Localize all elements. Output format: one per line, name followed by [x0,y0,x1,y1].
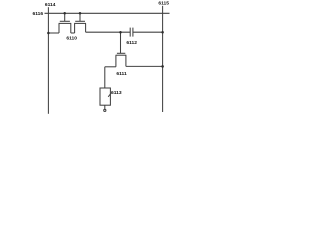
node dot capacitor wire to right bit line [161,31,164,34]
transistor Q3 drain leg [125,55,127,66]
wire stub below box [104,105,106,109]
svg-text:6112: 6112 [126,40,137,46]
transistor Q1 gate bar [60,20,70,22]
svg-text:6113: 6113 [111,90,122,96]
transistor Q2 source leg [74,23,76,33]
box component 6113 [100,88,110,105]
wire gate line to transistor 6111 [120,32,122,53]
node dot gate-line junction [119,31,122,34]
wire capacitor to right bit line [133,31,163,33]
node dot rail-Q2 gate [79,12,82,15]
transistor Q1 drain leg [70,23,72,33]
capacitor C 6112 left plate [129,28,131,37]
wire Q3 drain to right bit line [126,65,163,67]
node dot rail-Q1 gate [63,12,66,15]
svg-text:6114: 6114 [45,2,56,8]
wire right bit line 6115 [162,6,164,112]
transistor Q3 (6111) gate bar [117,52,125,54]
transistor Q3 channel bar [116,54,127,56]
wire Q3 source to box lead [105,66,116,68]
wire left bit line 6114 [47,7,49,114]
svg-text:6116: 6116 [33,11,44,17]
wire top word-line rail 6116 [45,12,170,14]
leader line for label 6113 [108,93,111,97]
transistor Q1 channel bar [59,22,72,24]
node dot Q3 drain to right bit line [161,65,164,68]
wire Q2 drain to capacitor [86,31,131,33]
svg-text:6111: 6111 [116,71,127,77]
wire between Q1 and Q2 [71,32,75,34]
terminal circle below box [104,109,106,111]
wire left vertical to Q1 source [48,32,59,34]
svg-text:6115: 6115 [158,1,169,7]
node dot left bit line source junction [47,32,50,35]
wire vertical lead into box 6113 [104,67,106,88]
transistor Q1 source leg [58,23,60,33]
transistor Q3 source leg [115,55,117,67]
capacitor C 6112 right plate [132,28,134,37]
transistor Q2 (6110 right) gate tick [79,13,81,21]
transistor Q2 gate bar [75,20,85,22]
transistor Q2 drain leg [85,23,87,32]
transistor Q2 channel bar [74,22,86,24]
svg-text:6110: 6110 [66,36,77,42]
transistor Q1 (6110 left) gate tick [64,13,66,21]
